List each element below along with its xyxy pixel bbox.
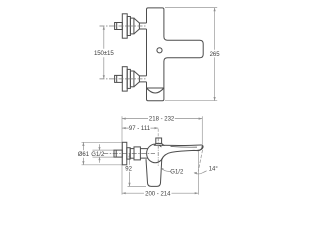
svg-text:92: 92	[125, 166, 132, 172]
svg-text:200 - 214: 200 - 214	[145, 192, 171, 198]
svg-text:218 - 232: 218 - 232	[149, 117, 175, 123]
svg-text:97 - 111: 97 - 111	[129, 126, 151, 132]
svg-text:150±15: 150±15	[94, 50, 114, 57]
svg-text:14°: 14°	[209, 166, 219, 172]
svg-text:265: 265	[210, 52, 221, 58]
svg-text:G1/2: G1/2	[91, 152, 105, 158]
svg-text:Ø61: Ø61	[78, 152, 90, 158]
svg-text:G1/2: G1/2	[170, 169, 184, 175]
